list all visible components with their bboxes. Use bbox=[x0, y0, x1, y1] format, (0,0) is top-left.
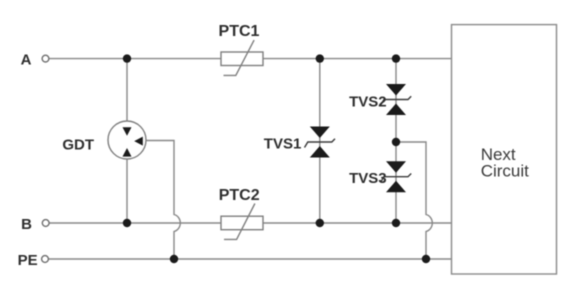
svg-text:TVS2: TVS2 bbox=[349, 94, 387, 111]
svg-text:A: A bbox=[21, 52, 32, 69]
resistor PTC1 strike line bbox=[224, 40, 255, 75]
wire: GDT bottom electrode down to line B bbox=[126, 159, 128, 224]
wire: node A junction down to GDT top electrode bbox=[126, 59, 128, 122]
svg-text:Circuit: Circuit bbox=[481, 161, 529, 180]
resistor PTC2 strike line bbox=[224, 204, 255, 240]
wire: GDT center electrode to PE with hop over line B bbox=[146, 141, 180, 260]
junction on line PE at GDT ground wire bbox=[170, 255, 178, 263]
junction on line B at TVS1 branch bbox=[316, 219, 324, 227]
svg-text:PTC2: PTC2 bbox=[219, 187, 260, 204]
wire: line A from PTC1 to Next Circuit box bbox=[263, 58, 452, 60]
diode TVS2 (bidirectional TVS) bbox=[381, 84, 412, 115]
terminal B (open circle) bbox=[42, 220, 49, 227]
svg-text:GDT: GDT bbox=[62, 137, 94, 154]
svg-text:TVS3: TVS3 bbox=[349, 170, 387, 187]
wire: TVS2-TVS3 midpoint to PE with hop over line B bbox=[396, 142, 432, 259]
wire: TVS2/TVS3 branch from line A to line B bbox=[395, 59, 397, 223]
junction on line A at GDT branch bbox=[123, 54, 131, 62]
diode TVS1 (bidirectional TVS) bbox=[305, 127, 336, 158]
svg-text:B: B bbox=[21, 216, 32, 233]
junction between TVS2 and TVS3 bbox=[392, 138, 400, 146]
svg-text:PE: PE bbox=[18, 252, 38, 269]
junction on line B at TVS3 branch bbox=[392, 219, 400, 227]
wire: line B from terminal to PTC2 bbox=[49, 222, 221, 224]
gas discharge tube GDT (3-electrode) bbox=[108, 121, 146, 159]
block: Next Circuit box bbox=[452, 25, 557, 274]
diode TVS3 (bidirectional TVS) bbox=[381, 161, 412, 192]
junction on line A at TVS2 branch bbox=[392, 54, 400, 62]
terminal A (open circle) bbox=[42, 55, 49, 62]
wire: TVS1 branch from line A to line B bbox=[319, 59, 321, 223]
wire: line B from PTC2 to Next Circuit box bbox=[263, 222, 452, 224]
junction on line A at TVS1 branch bbox=[316, 54, 324, 62]
resistor PTC1 (PTC thermistor body) bbox=[221, 52, 263, 66]
wire: line PE from terminal to Next Circuit box bbox=[49, 258, 452, 260]
resistor PTC2 (PTC thermistor body) bbox=[221, 216, 263, 230]
junction on line B at GDT branch bbox=[123, 219, 131, 227]
svg-text:TVS1: TVS1 bbox=[264, 136, 302, 153]
svg-text:PTC1: PTC1 bbox=[219, 23, 260, 40]
junction on line PE at TVS mid wire bbox=[422, 255, 430, 263]
terminal PE (open circle) bbox=[42, 256, 49, 263]
wire: line A from terminal to PTC1 bbox=[49, 58, 221, 60]
